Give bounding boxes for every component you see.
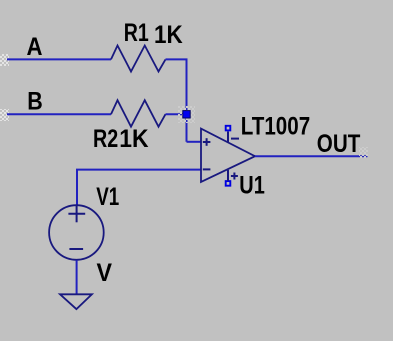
wire B horizontal: [7, 113, 111, 115]
ground symbol: [60, 294, 92, 309]
wire to op-amp + input: [187, 141, 202, 143]
resistor R2: [111, 100, 166, 127]
op-amp + input symbol: [203, 138, 211, 146]
op-amp bottom power pin square: [226, 181, 231, 186]
svg-text:U1: U1: [239, 171, 265, 199]
svg-text:OUT: OUT: [317, 130, 361, 158]
resistor R1: [111, 46, 166, 72]
wire V1 bottom to ground: [76, 260, 78, 294]
V1 plus symbol: [68, 205, 85, 223]
svg-text:LT1007: LT1007: [241, 112, 311, 140]
junction stipple halo: [178, 106, 195, 123]
svg-text:1K: 1K: [154, 21, 183, 49]
svg-text:V1: V1: [96, 183, 119, 211]
terminal stipple at wire B end: [0, 109, 9, 121]
op-amp top power minus mark: [231, 138, 239, 140]
op-amp bottom power pin stub: [227, 170, 229, 181]
voltage source V1 circle: [49, 205, 104, 260]
svg-text:R1: R1: [124, 19, 149, 47]
svg-text:1K: 1K: [119, 125, 148, 153]
wire A horizontal: [7, 58, 111, 60]
op-amp top power pin square: [226, 126, 231, 131]
op-amp top power pin stub: [227, 132, 229, 143]
svg-text:R2: R2: [93, 125, 118, 153]
junction node (solid square): [183, 111, 190, 118]
svg-text:B: B: [27, 88, 43, 116]
wire R1 right lead: [166, 59, 187, 141]
output wire: [255, 155, 368, 157]
terminal stipple at wire A end: [0, 54, 9, 66]
wire R2 right lead: [166, 113, 187, 115]
wire to op-amp - input: [77, 170, 201, 205]
terminal stipple at OUT end: [359, 147, 368, 158]
op-amp U1 triangle: [201, 129, 255, 182]
op-amp bottom power plus mark: [231, 173, 238, 180]
svg-text:V: V: [97, 259, 113, 287]
op-amp - input symbol: [203, 168, 211, 170]
svg-text:A: A: [27, 33, 43, 61]
V1 minus symbol: [69, 248, 83, 250]
